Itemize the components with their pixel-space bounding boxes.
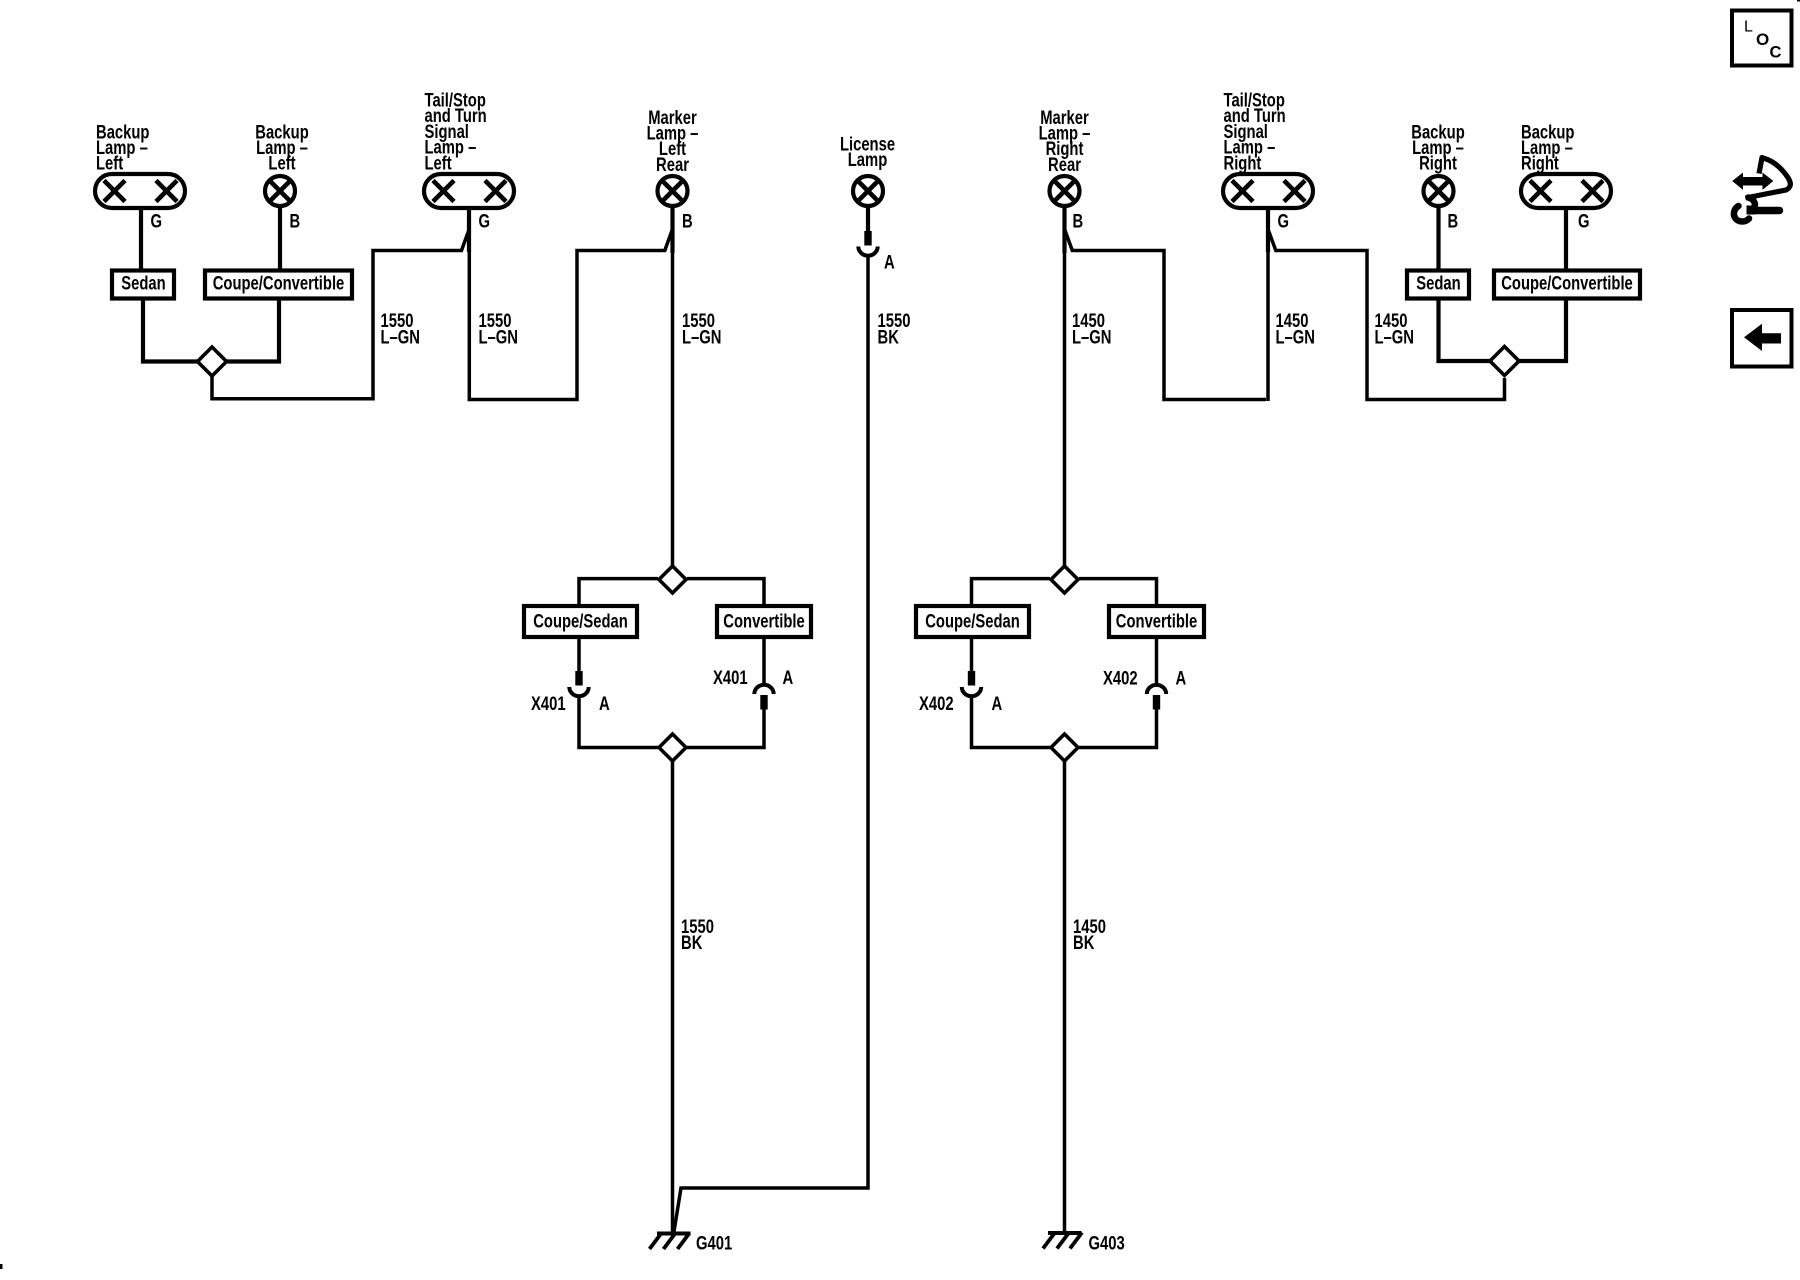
splice diamond S6 (bottom of X402 loop) bbox=[1051, 734, 1078, 761]
connector X402 pin A (Convertible side) male terminal bbox=[1153, 695, 1160, 710]
option box: Coupe/Sedan (X401 branch) bbox=[524, 606, 637, 637]
label: Backup Lamp - Right (E9) bbox=[1521, 122, 1574, 175]
lamp E5: License Lamp bbox=[853, 176, 883, 206]
wire: E7 pin G pigtail bbox=[1266, 206, 1270, 252]
svg-text:G: G bbox=[1278, 211, 1290, 232]
wire: Sedan box (right) to splice diamond S5 bbox=[1439, 297, 1492, 361]
lamp E3: Tail/Stop and Turn Signal Lamp - Left (dual filament) bbox=[424, 174, 514, 208]
connector X402 pin A (Coupe/Sedan side) female cup bbox=[962, 687, 981, 696]
wire: E5 pigtail to inline connector bbox=[866, 206, 870, 232]
splice diamond S3 (bottom of X401 loop) bbox=[659, 734, 686, 761]
splice diamond S5 (right backup lamps) bbox=[1490, 347, 1519, 376]
inline connector below license lamp (female cup) bbox=[858, 247, 877, 256]
svg-text:Convertible: Convertible bbox=[1116, 611, 1197, 632]
page corner mark (bottom left) bbox=[0, 1264, 3, 1269]
wire: Coupe/Convertible box to splice diamond S1 bbox=[226, 297, 280, 362]
lamp E9: Backup Lamp - Right (dual filament) bbox=[1521, 174, 1611, 208]
lamp E8: Backup Lamp - Right (single) bbox=[1424, 176, 1454, 206]
wire: Coupe/Sedan box down to connector X402 bbox=[970, 636, 974, 672]
connector X401 pin A (Convertible side) female cup bbox=[754, 685, 773, 694]
wire: marker right run down to splice diamond S4 bbox=[1063, 251, 1067, 566]
wire: E6 pin B pigtail bbox=[1062, 206, 1066, 253]
splice diamond S4 (top of X402 loop) bbox=[1051, 566, 1078, 593]
splice diamond S2 (top of X401 loop) bbox=[659, 566, 686, 593]
svg-text:Coupe/Convertible: Coupe/Convertible bbox=[1501, 273, 1633, 294]
wire: X401 male terminal down to splice diamond S3 bbox=[687, 708, 764, 748]
svg-text:Convertible: Convertible bbox=[723, 611, 804, 632]
svg-text:C: C bbox=[1770, 44, 1782, 62]
svg-text:A: A bbox=[1176, 668, 1187, 689]
svg-text:X401: X401 bbox=[531, 693, 566, 714]
lamp E7: Tail/Stop and Turn Signal Lamp - Right (dual filament) bbox=[1223, 174, 1313, 208]
option box: Convertible (X402 branch) bbox=[1109, 606, 1204, 637]
LOC reference box (top right) bbox=[1732, 11, 1792, 66]
wire: Sedan box to splice diamond S1 bbox=[143, 297, 199, 362]
ground G401 bbox=[650, 1233, 691, 1249]
wire label: 1550 L-GN (third run) bbox=[682, 310, 721, 348]
svg-text:G: G bbox=[479, 211, 491, 232]
svg-text:Right: Right bbox=[1521, 153, 1559, 174]
svg-text:Right: Right bbox=[1419, 153, 1457, 174]
wire: E1 pin G to Sedan box bbox=[139, 206, 143, 272]
svg-text:Lamp: Lamp bbox=[848, 149, 887, 170]
svg-text:L: L bbox=[1744, 19, 1753, 36]
svg-text:A: A bbox=[599, 693, 610, 714]
wire: branch from tail/stop right run to backup right run bbox=[1269, 231, 1505, 400]
label: Backup Lamp - Left (E2) bbox=[255, 122, 308, 175]
wire: E3 pin G pigtail bbox=[467, 206, 471, 252]
lamp E1: Backup Lamp - Left (dual filament) bbox=[95, 174, 185, 208]
svg-text:X401: X401 bbox=[713, 667, 748, 688]
svg-text:L–GN: L–GN bbox=[1072, 327, 1111, 348]
svg-text:BK: BK bbox=[878, 327, 900, 348]
option box: Coupe/Sedan (X402 branch) bbox=[916, 606, 1029, 637]
svg-text:Coupe/Convertible: Coupe/Convertible bbox=[213, 273, 345, 294]
label: Backup Lamp - Left bbox=[96, 122, 149, 175]
wire: E2 pin B to Coupe/Convertible box bbox=[278, 206, 282, 272]
wire label: 1450 L-GN (second run) bbox=[1276, 310, 1315, 348]
svg-text:A: A bbox=[884, 252, 895, 273]
svg-text:L–GN: L–GN bbox=[682, 327, 721, 348]
svg-text:G401: G401 bbox=[696, 1233, 732, 1254]
svg-text:Left: Left bbox=[425, 153, 452, 174]
connector X401 pin A (Coupe/Sedan side) female cup bbox=[569, 687, 588, 696]
svg-text:Coupe/Sedan: Coupe/Sedan bbox=[533, 611, 628, 632]
wire: S4 right branch to Convertible box (X402) bbox=[1079, 579, 1157, 608]
wire: E8 pin B to Sedan box (right) bbox=[1436, 206, 1440, 272]
svg-text:A: A bbox=[783, 667, 794, 688]
wire label: 1550 L-GN (first run) bbox=[381, 310, 420, 348]
page corner mark (top right) bbox=[1797, 0, 1800, 2]
component information icon (double arrow, outline, wrench) bbox=[1733, 158, 1790, 222]
connector X401 pin A (Coupe/Sedan side) male terminal bbox=[575, 671, 582, 686]
svg-text:X402: X402 bbox=[1103, 668, 1138, 689]
svg-text:G: G bbox=[151, 211, 163, 232]
svg-text:L–GN: L–GN bbox=[1375, 327, 1414, 348]
label: Tail/Stop and Turn Signal Lamp - Right bbox=[1224, 90, 1286, 174]
wire: Convertible box down to connector X401 (right) bbox=[762, 636, 766, 685]
wire: E9 pin G to Coupe/Convertible box (right) bbox=[1564, 206, 1568, 272]
svg-text:B: B bbox=[1073, 211, 1084, 232]
svg-text:BK: BK bbox=[681, 932, 703, 953]
option box: Coupe/Convertible (right) bbox=[1494, 271, 1640, 299]
wire: branch from marker right run to tail/stop right run bbox=[1065, 231, 1266, 400]
wire label: 1450 BK (ground run) bbox=[1073, 916, 1106, 953]
label: Backup Lamp - Right (E8) bbox=[1411, 122, 1464, 175]
wire: 1550 BK run from S3 down to ground G401 bbox=[671, 761, 675, 1234]
svg-text:X402: X402 bbox=[919, 693, 954, 714]
wire: S2 right branch to Convertible box bbox=[687, 579, 764, 608]
ground G403 bbox=[1043, 1233, 1082, 1249]
wire label: 1450 L-GN (third run) bbox=[1375, 310, 1414, 348]
connector X402 pin A (Coupe/Sedan side) male terminal bbox=[968, 671, 975, 686]
svg-text:L–GN: L–GN bbox=[479, 327, 518, 348]
label: Marker Lamp - Right Rear bbox=[1039, 107, 1091, 175]
inline connector below license lamp (male terminal) bbox=[864, 231, 871, 246]
splice diamond S1 (left backup lamps) bbox=[198, 347, 227, 376]
svg-text:G403: G403 bbox=[1089, 1233, 1125, 1254]
svg-text:L–GN: L–GN bbox=[381, 327, 420, 348]
wire: S4 left branch to Coupe/Sedan box (X402) bbox=[972, 579, 1051, 608]
wire: Coupe/Convertible (right) to splice diamond S5 bbox=[1518, 297, 1567, 361]
option box: Sedan (right) bbox=[1407, 271, 1469, 299]
wire: 1550 BK license lamp run down to ground G401 bbox=[674, 256, 869, 1235]
svg-text:O: O bbox=[1756, 30, 1769, 49]
wire: S1 down, right, up to junction on 1550 L-GN run bbox=[212, 231, 469, 399]
svg-text:Right: Right bbox=[1224, 153, 1262, 174]
wire: marker lamp run down to splice diamond S2 bbox=[671, 251, 675, 566]
option box: Convertible (X401 branch) bbox=[717, 606, 811, 637]
svg-text:A: A bbox=[992, 693, 1003, 714]
label: Marker Lamp - Left Rear bbox=[647, 107, 699, 175]
wire label: 1550 BK (license run) bbox=[878, 310, 911, 348]
wire: X401 cup down to splice diamond S3 bbox=[579, 696, 658, 748]
svg-text:Sedan: Sedan bbox=[121, 273, 165, 294]
wire: Convertible box down to connector X402 (right) bbox=[1155, 636, 1159, 685]
wire label: 1550 BK (ground run) bbox=[681, 916, 714, 953]
svg-text:BK: BK bbox=[1073, 932, 1095, 953]
svg-text:B: B bbox=[1448, 211, 1459, 232]
svg-text:Sedan: Sedan bbox=[1416, 273, 1460, 294]
option box: Coupe/Convertible (left) bbox=[205, 271, 352, 299]
svg-text:Coupe/Sedan: Coupe/Sedan bbox=[925, 611, 1020, 632]
svg-text:Rear: Rear bbox=[656, 154, 689, 175]
svg-text:G: G bbox=[1578, 211, 1590, 232]
wire: tail/stop right run down to junction bbox=[1266, 250, 1270, 401]
svg-text:B: B bbox=[290, 211, 301, 232]
lamp E6: Marker Lamp - Right Rear bbox=[1050, 176, 1080, 206]
lamp E2: Backup Lamp - Left (single) bbox=[265, 176, 295, 206]
wire: S2 left branch to Coupe/Sedan box bbox=[579, 579, 658, 608]
wire label: 1550 L-GN (second run) bbox=[479, 310, 518, 348]
svg-text:L–GN: L–GN bbox=[1276, 327, 1315, 348]
label: License Lamp bbox=[840, 134, 895, 171]
wire: E3 run down, right, up to junction with marker lamp run bbox=[469, 231, 672, 400]
connector X401 pin A (Convertible side) male terminal bbox=[760, 695, 767, 710]
wire: X402 male terminal down to splice diamond S6 bbox=[1079, 708, 1157, 748]
connector X402 pin A (Convertible side) female cup bbox=[1147, 685, 1166, 694]
svg-text:Left: Left bbox=[96, 153, 123, 174]
wire: E4 pin B pigtail bbox=[670, 206, 674, 253]
wire label: 1450 L-GN (first run) bbox=[1072, 310, 1111, 348]
label: Tail/Stop and Turn Signal Lamp - Left bbox=[425, 90, 487, 174]
wire: Coupe/Sedan box down to connector X401 bbox=[577, 636, 581, 672]
wire: 1450 BK run from S6 down to ground G403 bbox=[1063, 761, 1067, 1233]
svg-text:Rear: Rear bbox=[1048, 154, 1081, 175]
wire: X402 cup down to splice diamond S6 bbox=[972, 696, 1051, 748]
back arrow box (right margin) bbox=[1732, 310, 1792, 367]
option box: Sedan (left) bbox=[112, 271, 174, 299]
svg-text:B: B bbox=[682, 211, 693, 232]
svg-text:Left: Left bbox=[268, 153, 295, 174]
lamp E4: Marker Lamp - Left Rear bbox=[658, 176, 688, 206]
